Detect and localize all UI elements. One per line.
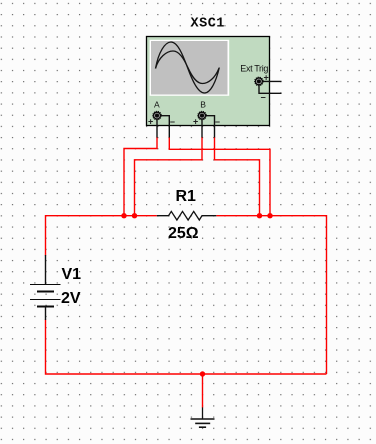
battery V1 (30, 255, 61, 320)
scope screen (150, 40, 230, 96)
label V1 (62, 266, 82, 283)
junction node at ground tap on bottom net (200, 371, 205, 376)
label A (154, 100, 160, 110)
junction node at left resistor net (A+) (121, 213, 126, 218)
value label 2V (61, 290, 81, 307)
scope pin B- (202, 116, 215, 138)
label Ext Trig (240, 64, 268, 74)
oscilloscope XSC1 body (147, 37, 270, 126)
scope pin Ext Trig + (259, 80, 282, 82)
wire: bottom net from V1 bottom around to right corner (46, 320, 327, 375)
svg-text:R1: R1 (176, 188, 197, 205)
polarity marks Ext Trig (261, 73, 269, 103)
svg-text:A: A (154, 100, 160, 110)
terminal B connector (198, 111, 207, 120)
label B (200, 100, 206, 110)
svg-text:XSC1: XSC1 (191, 17, 225, 32)
scope pin A- (157, 116, 169, 138)
wire: left resistor net from V1 top corner to R1 left pin (46, 216, 157, 256)
terminal A connector (153, 111, 162, 120)
svg-text:−: − (261, 93, 266, 103)
wire: right resistor net from R1 right pin to right corner down (216, 216, 326, 374)
ground (191, 407, 215, 427)
polarity marks B (193, 117, 220, 127)
scope trace channel B (156, 51, 220, 84)
svg-text:V1: V1 (62, 266, 82, 283)
scope trace channel A (156, 42, 220, 93)
wire B- net: scope B- down-right to right resistor node (215, 137, 260, 216)
resistor R1 (157, 211, 217, 220)
wire B+ net: scope B+ down-left to left resistor node (135, 137, 203, 216)
junction node at right resistor net (B-) (257, 213, 262, 218)
svg-text:B: B (200, 100, 206, 110)
wire A+ net: scope A+ down-left to left resistor node (124, 137, 157, 216)
junction node at left resistor net (B+) (132, 213, 137, 218)
svg-text:+: + (193, 117, 198, 127)
svg-text:2V: 2V (61, 290, 81, 307)
terminal Ext Trig connector (255, 77, 264, 86)
polarity marks A (148, 117, 175, 127)
label XSC1 (191, 17, 225, 32)
svg-text:−: − (215, 117, 220, 127)
svg-text:−: − (170, 117, 175, 127)
junction node at right resistor net (A-) (267, 213, 272, 218)
label R1 (176, 188, 197, 205)
value label 25Ω (168, 225, 199, 242)
svg-text:25Ω: 25Ω (168, 225, 199, 242)
wire A- net: scope A- down-right to right resistor node (169, 137, 270, 216)
svg-text:+: + (148, 117, 153, 127)
wire: ground stem red segment (202, 374, 204, 408)
scope pin B+ (201, 116, 203, 138)
scope pin Ext Trig - (259, 81, 282, 93)
svg-text:+: + (264, 73, 269, 83)
scope pin A+ (156, 116, 158, 138)
